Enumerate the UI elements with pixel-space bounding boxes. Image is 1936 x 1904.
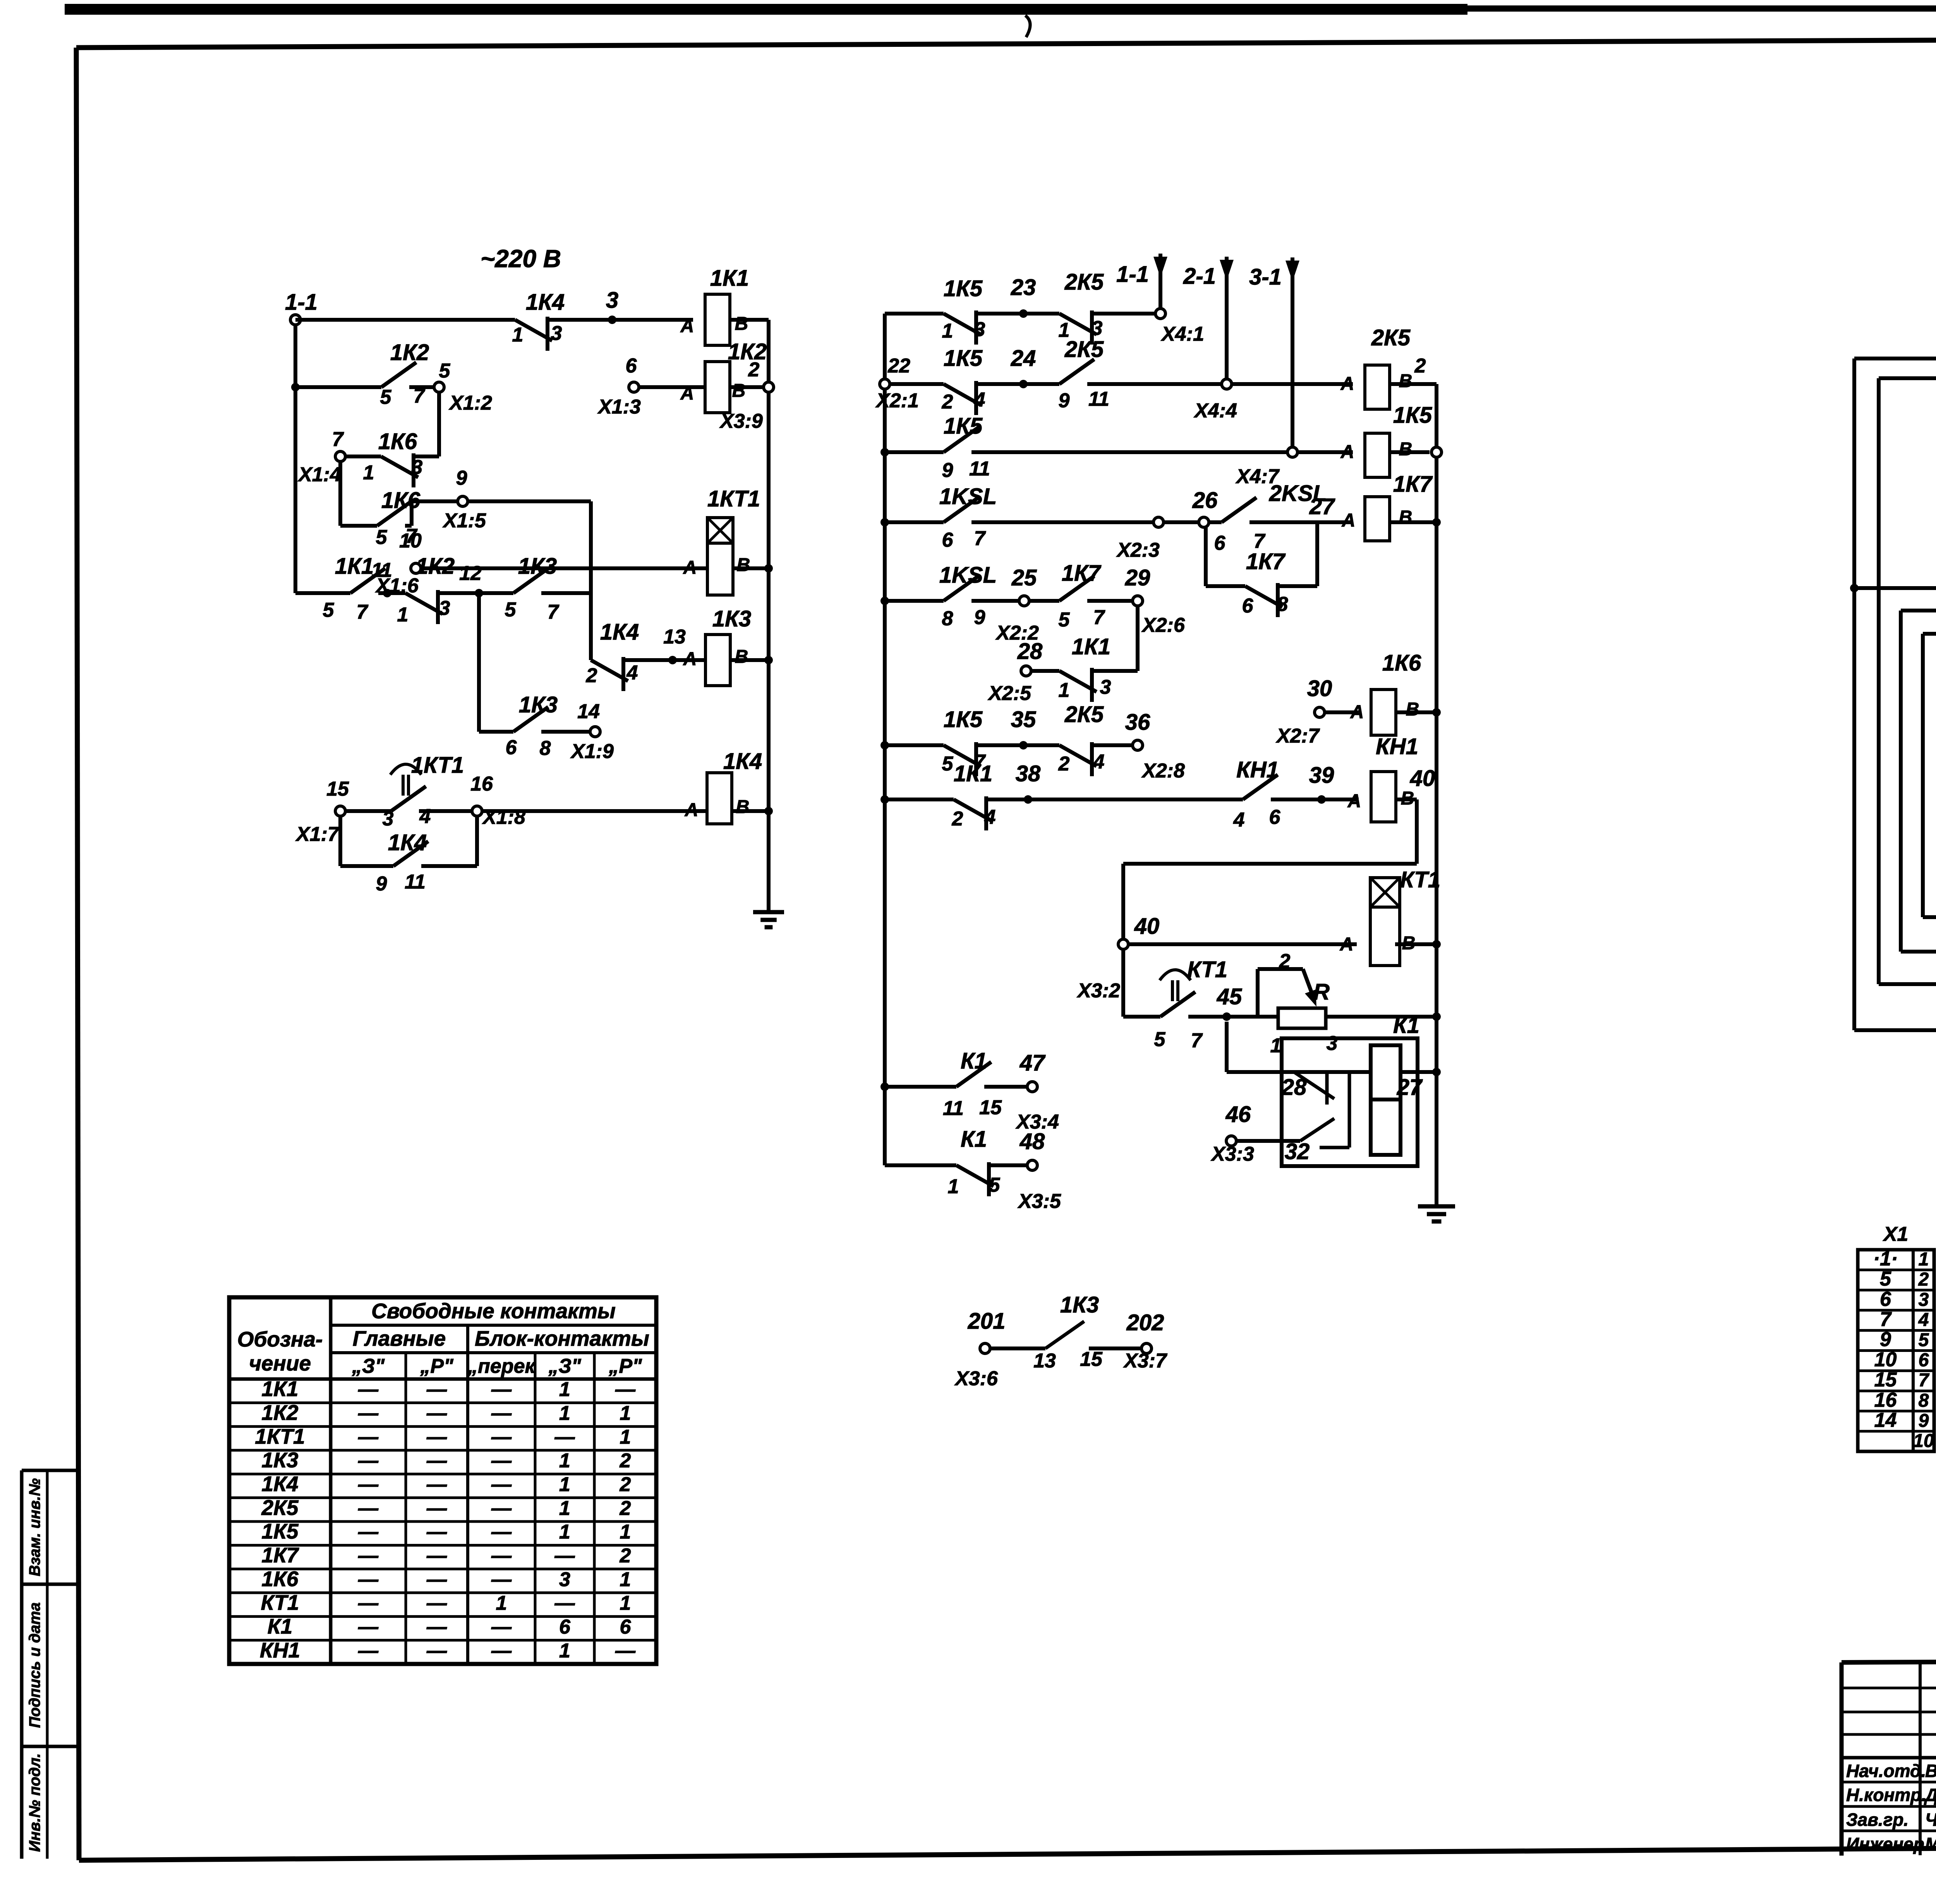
svg-text:4: 4	[419, 805, 431, 828]
svg-text:8: 8	[540, 737, 551, 760]
svg-text:3: 3	[1919, 1290, 1929, 1310]
svg-text:1К6: 1К6	[262, 1567, 299, 1591]
svg-text:1К3: 1К3	[1060, 1292, 1099, 1317]
svg-text:Подпись и дата: Подпись и дата	[26, 1602, 43, 1728]
svg-text:8: 8	[1919, 1390, 1929, 1411]
svg-text:—: —	[358, 1402, 379, 1424]
svg-text:3: 3	[1100, 676, 1111, 698]
svg-text:5: 5	[505, 599, 517, 621]
svg-text:чение: чение	[249, 1351, 311, 1375]
svg-text:2: 2	[952, 808, 963, 830]
svg-text:Блок-контакты: Блок-контакты	[475, 1326, 649, 1350]
svg-text:1К1: 1К1	[335, 554, 374, 579]
svg-text:15: 15	[1080, 1348, 1103, 1371]
svg-text:—: —	[491, 1568, 512, 1591]
svg-text:46: 46	[1225, 1102, 1251, 1127]
svg-text:X3:7: X3:7	[1123, 1350, 1167, 1372]
svg-text:„Р": „Р"	[608, 1355, 642, 1377]
svg-text:6: 6	[942, 529, 954, 551]
svg-text:7: 7	[332, 428, 344, 451]
svg-text:—: —	[358, 1521, 379, 1543]
svg-text:1К1: 1К1	[1072, 634, 1110, 659]
svg-text:Взам. инв.№: Взам. инв.№	[26, 1478, 43, 1576]
svg-text:—: —	[491, 1544, 512, 1567]
svg-text:45: 45	[1217, 984, 1242, 1009]
svg-text:—: —	[358, 1544, 379, 1567]
svg-text:—: —	[491, 1473, 512, 1496]
svg-text:4: 4	[974, 389, 985, 411]
svg-text:1: 1	[1059, 679, 1070, 702]
svg-text:X2:7: X2:7	[1275, 725, 1320, 747]
svg-text:1KSL: 1KSL	[939, 484, 997, 509]
svg-text:11: 11	[1088, 388, 1109, 410]
svg-text:6: 6	[1919, 1350, 1929, 1371]
svg-text:А: А	[680, 316, 694, 336]
svg-text:—: —	[358, 1497, 379, 1520]
svg-text:—: —	[491, 1449, 512, 1472]
svg-text:В: В	[735, 647, 748, 667]
svg-text:6: 6	[506, 736, 517, 759]
svg-text:1К2: 1К2	[390, 340, 429, 365]
svg-text:1: 1	[1919, 1249, 1929, 1270]
svg-text:Свободные контакты: Свободные контакты	[371, 1299, 616, 1323]
svg-text:2: 2	[1414, 355, 1426, 377]
svg-text:27: 27	[1397, 1075, 1423, 1100]
svg-text:15: 15	[979, 1096, 1002, 1119]
svg-text:2: 2	[1918, 1269, 1929, 1290]
svg-text:1-1: 1-1	[1116, 262, 1149, 287]
svg-text:В: В	[1406, 699, 1419, 720]
svg-text:X2:1: X2:1	[875, 389, 919, 412]
svg-text:1KSL: 1KSL	[939, 563, 997, 588]
svg-text:7: 7	[1919, 1370, 1930, 1391]
svg-text:1: 1	[620, 1426, 631, 1448]
svg-text:1К5: 1К5	[262, 1519, 299, 1543]
svg-text:X3:5: X3:5	[1017, 1190, 1061, 1213]
svg-text:6: 6	[620, 1616, 632, 1638]
svg-text:2-1: 2-1	[1183, 264, 1216, 289]
svg-text:—: —	[426, 1426, 447, 1448]
svg-text:7: 7	[1191, 1029, 1203, 1052]
svg-text:КТ1: КТ1	[1187, 957, 1227, 982]
svg-text:—: —	[358, 1616, 379, 1638]
svg-text:—: —	[491, 1521, 512, 1543]
svg-text:X1:5: X1:5	[442, 509, 486, 532]
svg-text:2: 2	[748, 359, 760, 381]
svg-text:1: 1	[948, 1175, 959, 1198]
svg-text:1К1: 1К1	[262, 1377, 299, 1401]
svg-text:9: 9	[376, 873, 387, 895]
svg-text:А: А	[1342, 510, 1356, 531]
svg-text:А: А	[685, 800, 699, 820]
svg-text:40: 40	[1134, 914, 1160, 939]
svg-text:1: 1	[559, 1449, 570, 1472]
svg-text:В: В	[1399, 439, 1413, 460]
svg-text:В: В	[1401, 788, 1414, 809]
svg-text:2К5: 2К5	[1064, 337, 1104, 362]
svg-text:—: —	[426, 1378, 447, 1401]
svg-text:А: А	[683, 557, 697, 578]
svg-text:5: 5	[376, 526, 388, 549]
svg-text:—: —	[491, 1378, 512, 1401]
svg-text:2: 2	[586, 664, 597, 687]
svg-text:1К1: 1К1	[710, 266, 749, 291]
svg-text:11: 11	[969, 458, 990, 480]
svg-text:X1:6: X1:6	[375, 575, 419, 597]
svg-text:А: А	[683, 649, 697, 669]
svg-text:Главные: Главные	[353, 1326, 446, 1350]
svg-text:36: 36	[1125, 710, 1150, 735]
svg-text:—: —	[615, 1378, 636, 1401]
svg-text:X1:2: X1:2	[448, 392, 492, 414]
svg-text:1: 1	[559, 1521, 570, 1543]
svg-text:1К4: 1К4	[600, 619, 639, 645]
svg-text:23: 23	[1011, 275, 1036, 300]
svg-text:9: 9	[1880, 1328, 1891, 1351]
svg-text:X3:3: X3:3	[1210, 1143, 1254, 1165]
svg-text:—: —	[358, 1449, 379, 1472]
svg-text:X3:9: X3:9	[719, 410, 763, 432]
svg-text:1К2: 1К2	[728, 339, 767, 364]
svg-text:4: 4	[626, 662, 638, 684]
svg-text:6: 6	[1242, 595, 1254, 617]
svg-text:1К4: 1К4	[723, 749, 762, 774]
svg-text:КН1: КН1	[260, 1638, 300, 1662]
svg-text:32: 32	[1285, 1139, 1310, 1164]
svg-text:14: 14	[1874, 1409, 1897, 1431]
svg-text:15: 15	[1874, 1369, 1897, 1391]
svg-text:—: —	[491, 1497, 512, 1520]
svg-text:2: 2	[620, 1497, 631, 1520]
svg-text:12: 12	[459, 562, 482, 585]
svg-text:1К3: 1К3	[519, 692, 558, 717]
svg-text:1К5: 1К5	[944, 413, 983, 439]
svg-text:5: 5	[1059, 609, 1070, 631]
svg-text:Зав.гр.: Зав.гр.	[1846, 1810, 1909, 1830]
svg-text:—: —	[554, 1544, 575, 1567]
svg-text:3: 3	[439, 597, 450, 619]
svg-text:39: 39	[1309, 763, 1334, 788]
svg-text:КН1: КН1	[1236, 757, 1279, 782]
svg-text:9: 9	[942, 459, 953, 482]
svg-text:1: 1	[620, 1592, 631, 1614]
svg-text:—: —	[426, 1568, 447, 1591]
svg-text:В: В	[737, 555, 750, 575]
svg-text:27: 27	[1309, 494, 1335, 519]
svg-text:X4:4: X4:4	[1193, 400, 1237, 422]
svg-text:1К6: 1К6	[1382, 650, 1421, 676]
svg-text:А: А	[1347, 791, 1361, 811]
svg-text:48: 48	[1019, 1129, 1045, 1154]
svg-text:11: 11	[943, 1097, 964, 1120]
svg-text:38: 38	[1016, 761, 1041, 786]
svg-text:1К5: 1К5	[944, 276, 983, 301]
svg-text:Магулария: Магулария	[1925, 1834, 1936, 1854]
svg-text:29: 29	[1125, 565, 1150, 590]
svg-text:—: —	[358, 1592, 379, 1614]
svg-text:1КТ1: 1КТ1	[411, 753, 464, 778]
svg-text:1: 1	[620, 1402, 631, 1424]
svg-text:1К4: 1К4	[262, 1472, 299, 1496]
svg-text:28: 28	[1017, 639, 1043, 664]
svg-text:X1:9: X1:9	[570, 740, 614, 763]
svg-text:1К4: 1К4	[526, 290, 565, 315]
svg-text:X2:3: X2:3	[1116, 539, 1160, 561]
svg-text:3: 3	[606, 288, 618, 313]
svg-text:7: 7	[357, 601, 369, 623]
svg-text:1: 1	[496, 1592, 507, 1614]
svg-text:7: 7	[414, 385, 426, 407]
svg-text:1К2: 1К2	[262, 1400, 299, 1424]
svg-text:16: 16	[1874, 1389, 1897, 1411]
svg-text:9: 9	[1059, 389, 1070, 412]
svg-text:7: 7	[1880, 1308, 1892, 1331]
svg-text:1КТ1: 1КТ1	[707, 486, 760, 511]
svg-text:„З": „З"	[352, 1355, 385, 1377]
svg-text:5: 5	[323, 599, 335, 621]
svg-text:1: 1	[512, 324, 523, 346]
svg-text:А: А	[1350, 702, 1364, 722]
svg-text:4: 4	[1918, 1310, 1929, 1330]
svg-text:К1: К1	[961, 1127, 987, 1152]
svg-text:3: 3	[551, 322, 562, 345]
svg-text:1: 1	[397, 604, 408, 626]
svg-text:Х1:4: Х1:4	[297, 463, 341, 486]
svg-text:В: В	[735, 314, 748, 334]
svg-text:В: В	[736, 797, 750, 817]
svg-text:5: 5	[989, 1174, 1001, 1196]
svg-text:—: —	[491, 1426, 512, 1448]
svg-text:1: 1	[559, 1640, 570, 1662]
svg-text:5: 5	[1880, 1268, 1891, 1290]
svg-text:6: 6	[559, 1616, 571, 1638]
svg-text:КТ1: КТ1	[261, 1590, 299, 1614]
svg-text:К1: К1	[268, 1614, 292, 1638]
svg-text:15: 15	[326, 778, 349, 800]
svg-text:—: —	[358, 1473, 379, 1496]
svg-text:1: 1	[559, 1378, 570, 1401]
svg-text:25: 25	[1011, 565, 1037, 590]
svg-text:1-1: 1-1	[285, 290, 318, 315]
svg-text:Обозна-: Обозна-	[237, 1327, 323, 1351]
svg-text:3: 3	[1327, 1032, 1338, 1055]
svg-text:1К6: 1К6	[378, 429, 417, 454]
svg-text:2: 2	[620, 1544, 631, 1567]
svg-text:1К3: 1К3	[712, 606, 751, 631]
svg-text:КТ1: КТ1	[1400, 867, 1440, 892]
svg-text:1КТ1: 1КТ1	[255, 1424, 305, 1448]
svg-text:Инв.№ подл.: Инв.№ подл.	[26, 1753, 43, 1852]
svg-text:X1:7: X1:7	[295, 823, 340, 846]
svg-text:5: 5	[380, 386, 392, 408]
svg-text:201: 201	[968, 1309, 1006, 1334]
svg-text:X1:3: X1:3	[597, 396, 641, 418]
svg-text:—: —	[491, 1616, 512, 1638]
svg-text:~220 В: ~220 В	[481, 245, 561, 273]
svg-text:10: 10	[1913, 1431, 1934, 1451]
svg-text:1К4: 1К4	[388, 830, 427, 855]
svg-text:2: 2	[1058, 753, 1070, 775]
svg-text:X3:2: X3:2	[1076, 979, 1120, 1002]
svg-text:—: —	[426, 1473, 447, 1496]
svg-text:1: 1	[620, 1521, 631, 1543]
svg-text:3-1: 3-1	[1249, 264, 1282, 290]
svg-text:—: —	[615, 1640, 636, 1662]
svg-text:·1·: ·1·	[1873, 1248, 1898, 1270]
svg-text:6: 6	[1880, 1288, 1891, 1311]
svg-text:5: 5	[1919, 1330, 1929, 1350]
svg-text:—: —	[358, 1568, 379, 1591]
svg-text:5: 5	[439, 360, 451, 382]
svg-text:—: —	[554, 1426, 575, 1448]
svg-text:2К5: 2К5	[1064, 269, 1104, 295]
svg-text:202: 202	[1126, 1310, 1164, 1335]
svg-text:9: 9	[1919, 1410, 1929, 1431]
svg-text:40: 40	[1410, 766, 1435, 791]
svg-text:КН1: КН1	[1376, 734, 1418, 759]
svg-text:28: 28	[1281, 1075, 1307, 1100]
svg-text:X4:1: X4:1	[1160, 323, 1204, 345]
svg-text:X3:6: X3:6	[954, 1367, 998, 1390]
svg-text:Нач.отд.: Нач.отд.	[1846, 1761, 1926, 1781]
svg-text:1: 1	[559, 1473, 570, 1496]
svg-text:2К5: 2К5	[1064, 702, 1104, 727]
svg-text:—: —	[554, 1592, 575, 1614]
svg-text:22: 22	[887, 355, 910, 377]
svg-text:„З": „З"	[548, 1355, 581, 1377]
svg-text:В: В	[732, 381, 746, 401]
svg-text:24: 24	[1011, 346, 1036, 371]
svg-text:А: А	[1340, 934, 1354, 955]
svg-text:—: —	[426, 1544, 447, 1567]
svg-text:1: 1	[942, 320, 953, 342]
svg-text:1К5: 1К5	[1393, 403, 1432, 428]
svg-text:X2:6: X2:6	[1141, 614, 1185, 636]
svg-text:13: 13	[1033, 1350, 1056, 1372]
svg-text:Давлианидзе: Давлианидзе	[1924, 1785, 1936, 1805]
svg-text:6: 6	[626, 355, 637, 377]
svg-text:Вишневский: Вишневский	[1925, 1761, 1936, 1781]
svg-text:3: 3	[974, 318, 985, 341]
svg-text:В: В	[1402, 933, 1416, 954]
svg-text:„перек: „перек	[467, 1355, 536, 1377]
svg-text:Н.контр.: Н.контр.	[1846, 1785, 1926, 1805]
svg-text:—: —	[358, 1426, 379, 1448]
svg-text:8: 8	[942, 607, 953, 630]
svg-text:А: А	[1340, 442, 1354, 462]
svg-text:7: 7	[1093, 606, 1105, 629]
svg-text:3: 3	[383, 808, 394, 830]
svg-text:2К5: 2К5	[1371, 325, 1411, 350]
svg-text:1: 1	[363, 461, 374, 484]
svg-text:2К5: 2К5	[261, 1496, 299, 1520]
svg-text:1К5: 1К5	[944, 346, 983, 371]
svg-text:5: 5	[1154, 1028, 1166, 1051]
svg-text:В: В	[1399, 507, 1413, 528]
svg-text:4: 4	[984, 806, 996, 828]
svg-text:1К3: 1К3	[262, 1448, 299, 1472]
svg-text:6: 6	[1214, 532, 1226, 554]
svg-text:А: А	[680, 383, 694, 404]
svg-text:14: 14	[577, 700, 600, 723]
svg-text:—: —	[426, 1497, 447, 1520]
svg-text:—: —	[426, 1449, 447, 1472]
svg-text:3: 3	[412, 456, 423, 479]
svg-text:В: В	[1399, 371, 1413, 391]
svg-text:—: —	[358, 1640, 379, 1662]
svg-text:2: 2	[620, 1449, 631, 1472]
svg-text:16: 16	[470, 773, 493, 795]
svg-text:1К5: 1К5	[944, 707, 983, 732]
svg-text:3: 3	[559, 1568, 570, 1591]
svg-text:47: 47	[1019, 1050, 1046, 1076]
svg-text:26: 26	[1192, 488, 1218, 513]
svg-text:Х1: Х1	[1883, 1223, 1909, 1245]
svg-text:А: А	[1340, 374, 1354, 394]
svg-text:К1: К1	[1393, 1013, 1419, 1038]
svg-text:1К7: 1К7	[1062, 561, 1102, 586]
svg-text:2: 2	[942, 391, 953, 413]
svg-text:1: 1	[559, 1402, 570, 1424]
svg-text:1К7: 1К7	[1246, 549, 1286, 574]
svg-text:9: 9	[974, 606, 985, 629]
svg-text:1: 1	[559, 1497, 570, 1520]
svg-text:—: —	[426, 1616, 447, 1638]
svg-text:—: —	[358, 1378, 379, 1401]
svg-text:7: 7	[548, 601, 560, 623]
svg-text:—: —	[426, 1640, 447, 1662]
svg-text:11: 11	[405, 871, 426, 893]
svg-text:„Р": „Р"	[420, 1355, 454, 1377]
svg-text:4: 4	[1233, 809, 1245, 831]
svg-text:9: 9	[456, 467, 467, 489]
svg-text:К1: К1	[961, 1048, 987, 1074]
svg-text:1: 1	[620, 1568, 631, 1591]
svg-text:1К7: 1К7	[262, 1543, 299, 1567]
svg-text:4: 4	[1093, 751, 1105, 773]
svg-text:1К3: 1К3	[518, 554, 557, 579]
svg-text:—: —	[491, 1402, 512, 1424]
svg-text:5: 5	[942, 753, 954, 775]
svg-text:Инженер: Инженер	[1846, 1834, 1924, 1854]
svg-text:Чаруева: Чаруева	[1925, 1810, 1936, 1830]
svg-text:1К1: 1К1	[954, 761, 992, 786]
svg-text:10: 10	[399, 530, 422, 552]
svg-text:—: —	[426, 1402, 447, 1424]
svg-text:—: —	[426, 1592, 447, 1614]
svg-text:8: 8	[1277, 593, 1288, 616]
svg-text:1К7: 1К7	[1393, 472, 1433, 497]
svg-text:2: 2	[620, 1473, 631, 1496]
svg-text:13: 13	[663, 626, 686, 648]
svg-text:X2:5: X2:5	[987, 682, 1032, 705]
svg-text:—: —	[426, 1521, 447, 1543]
svg-text:7: 7	[974, 527, 986, 550]
svg-text:—: —	[491, 1640, 512, 1662]
svg-text:30: 30	[1307, 676, 1332, 701]
svg-text:X2:8: X2:8	[1141, 760, 1185, 782]
svg-text:6: 6	[1269, 806, 1281, 828]
svg-text:10: 10	[1874, 1348, 1897, 1371]
svg-text:3: 3	[1092, 317, 1103, 340]
svg-text:35: 35	[1011, 707, 1036, 732]
